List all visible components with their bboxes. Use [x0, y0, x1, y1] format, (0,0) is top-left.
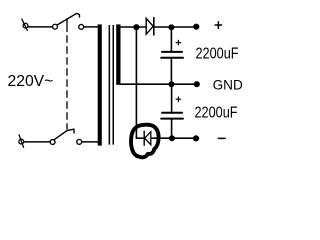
svg-text:2200uF: 2200uF — [196, 46, 239, 63]
svg-text:220V~: 220V~ — [8, 73, 54, 90]
svg-text:GND: GND — [213, 78, 243, 93]
svg-text:2200uF: 2200uF — [195, 105, 238, 122]
